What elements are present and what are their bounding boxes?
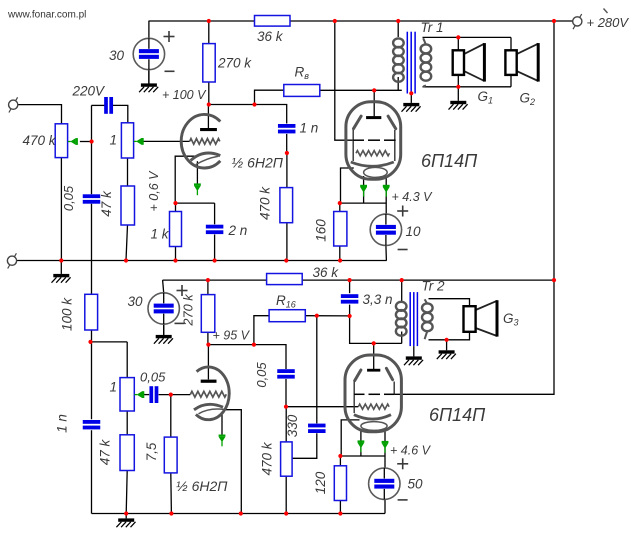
svg-text:0,05: 0,05 [254, 362, 269, 388]
svg-text:+ 100 V: + 100 V [162, 88, 207, 102]
svg-text:30: 30 [109, 48, 125, 63]
svg-text:6П14П: 6П14П [421, 151, 478, 171]
svg-text:7,5: 7,5 [144, 442, 159, 461]
svg-text:120: 120 [313, 471, 328, 494]
svg-text:30: 30 [128, 294, 144, 309]
svg-text:220V: 220V [72, 84, 107, 99]
svg-text:www.fonar.com.pl: www.fonar.com.pl [7, 10, 86, 21]
svg-text:6П14П: 6П14П [429, 405, 486, 425]
svg-text:Tr 1: Tr 1 [421, 20, 444, 35]
svg-text:2 n: 2 n [228, 223, 248, 238]
svg-text:+ 4.3 V: + 4.3 V [392, 190, 434, 204]
svg-text:1: 1 [110, 133, 118, 148]
svg-text:½ 6Н2П: ½ 6Н2П [176, 478, 228, 494]
svg-text:470 k: 470 k [23, 133, 57, 148]
svg-text:+ 95 V: + 95 V [213, 329, 251, 343]
svg-text:47 k: 47 k [99, 190, 114, 217]
svg-text:+ 0,6 V: + 0,6 V [147, 170, 161, 212]
svg-text:3,3 n: 3,3 n [363, 292, 393, 307]
svg-text:+ 4.6 V: + 4.6 V [390, 444, 432, 458]
svg-text:10: 10 [406, 224, 422, 239]
svg-text:470 k: 470 k [260, 441, 275, 475]
svg-text:36 k: 36 k [313, 265, 340, 280]
svg-text:1 k: 1 k [151, 227, 170, 242]
svg-text:330: 330 [285, 414, 300, 437]
svg-text:47 k: 47 k [98, 438, 113, 465]
svg-text:36 k: 36 k [257, 29, 284, 44]
svg-text:270 k: 270 k [217, 56, 252, 71]
svg-text:1 n: 1 n [55, 414, 70, 433]
svg-text:½ 6Н2П: ½ 6Н2П [232, 155, 284, 171]
svg-text:1 n: 1 n [300, 121, 319, 136]
svg-text:0,05: 0,05 [140, 370, 166, 385]
svg-text:Tr 2: Tr 2 [422, 279, 445, 294]
svg-text:+ 280V: + 280V [587, 15, 630, 30]
svg-text:50: 50 [408, 477, 424, 492]
svg-text:100 k: 100 k [60, 297, 75, 331]
svg-text:470 k: 470 k [258, 186, 273, 220]
svg-text:1: 1 [110, 380, 118, 395]
svg-text:160: 160 [313, 219, 328, 242]
svg-text:270 k: 270 k [181, 294, 196, 327]
svg-text:0,05: 0,05 [61, 185, 76, 211]
